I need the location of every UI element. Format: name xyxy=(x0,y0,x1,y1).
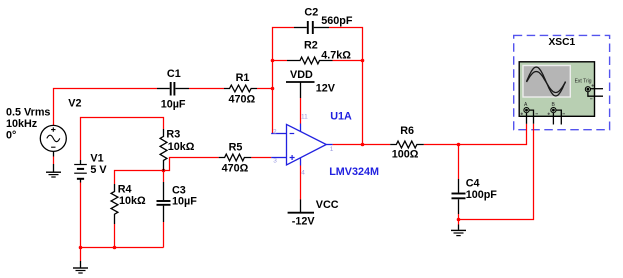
svg-text:-12V: -12V xyxy=(292,216,316,228)
svg-text:R2: R2 xyxy=(304,39,318,51)
svg-text:C2: C2 xyxy=(304,7,318,19)
svg-text:VCC: VCC xyxy=(316,199,339,211)
svg-text:4.7kΩ: 4.7kΩ xyxy=(321,50,351,62)
svg-text:C4: C4 xyxy=(466,178,480,190)
svg-text:R4: R4 xyxy=(118,184,132,196)
svg-text:0°: 0° xyxy=(6,129,16,141)
svg-text:R3: R3 xyxy=(166,129,180,141)
svg-text:4: 4 xyxy=(301,169,305,176)
svg-text:10kΩ: 10kΩ xyxy=(119,195,146,207)
svg-text:12V: 12V xyxy=(316,83,336,95)
svg-text:Ext Trig: Ext Trig xyxy=(575,79,592,85)
svg-text:11: 11 xyxy=(301,114,308,121)
svg-text:470Ω: 470Ω xyxy=(229,94,256,106)
svg-text:3: 3 xyxy=(273,157,277,164)
svg-text:2: 2 xyxy=(273,129,277,136)
svg-text:1: 1 xyxy=(330,146,334,153)
svg-text:V2: V2 xyxy=(68,97,81,109)
svg-text:R6: R6 xyxy=(400,125,414,137)
svg-text:LMV324M: LMV324M xyxy=(329,166,379,178)
svg-text:VDD: VDD xyxy=(290,69,313,81)
svg-text:5 V: 5 V xyxy=(90,164,107,176)
svg-text:100pF: 100pF xyxy=(466,189,498,201)
svg-text:470Ω: 470Ω xyxy=(222,162,249,174)
svg-text:U1A: U1A xyxy=(330,110,352,122)
svg-text:560pF: 560pF xyxy=(321,15,353,27)
svg-text:0.5 Vrms: 0.5 Vrms xyxy=(6,106,50,118)
svg-text:C3: C3 xyxy=(172,185,186,197)
svg-text:R1: R1 xyxy=(236,72,250,84)
svg-text:10kHz: 10kHz xyxy=(6,118,38,130)
svg-text:V1: V1 xyxy=(90,153,103,165)
svg-text:10µF: 10µF xyxy=(172,196,197,208)
svg-text:XSC1: XSC1 xyxy=(549,37,576,48)
svg-text:10µF: 10µF xyxy=(161,98,186,110)
svg-text:C1: C1 xyxy=(167,68,181,80)
svg-text:10kΩ: 10kΩ xyxy=(168,141,195,153)
svg-text:100Ω: 100Ω xyxy=(392,149,419,161)
svg-text:R5: R5 xyxy=(229,142,243,154)
